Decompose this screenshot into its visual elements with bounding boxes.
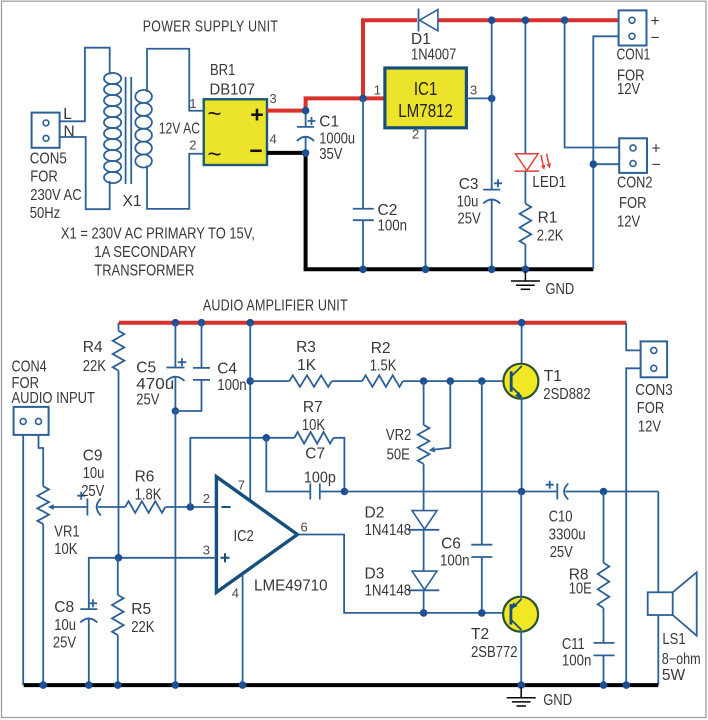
bridge rectifier BR1 box: [204, 99, 267, 165]
svg-text:1000u: 1000u: [319, 131, 355, 148]
transformer X1 secondary winding: [135, 90, 152, 168]
svg-text:GND: GND: [543, 692, 572, 709]
junction C3 ground: [488, 266, 496, 274]
svg-text:FOR: FOR: [30, 169, 58, 186]
svg-text:1.5K: 1.5K: [370, 358, 397, 375]
svg-text:POWER SUPPLY UNIT: POWER SUPPLY UNIT: [143, 19, 279, 36]
svg-text:25V: 25V: [458, 211, 482, 228]
svg-text:25V: 25V: [550, 544, 574, 561]
wire secondary bottom to BR1 pin 2: [147, 154, 204, 209]
svg-text:C6: C6: [441, 536, 461, 553]
svg-text:35V: 35V: [319, 146, 343, 163]
svg-text:C8: C8: [54, 599, 74, 616]
wire C9 to R6: [98, 506, 125, 508]
svg-text:12V AC: 12V AC: [159, 121, 200, 138]
junction top rail C3: [488, 16, 496, 24]
resistor R5 22K: [112, 595, 124, 635]
junction C1 top: [302, 107, 310, 115]
svg-text:−: −: [249, 137, 262, 163]
wire C2 from input node: [362, 98, 364, 208]
svg-text:+: +: [651, 13, 660, 30]
svg-text:D3: D3: [365, 566, 385, 583]
junction pin4 ground: [239, 681, 247, 689]
svg-text:GND: GND: [545, 281, 574, 298]
red wire BR1 pin3 to IC1 input node: [267, 98, 385, 112]
svg-text:C7: C7: [305, 446, 325, 463]
wire CON1 minus down: [593, 36, 618, 269]
svg-text:1: 1: [374, 83, 381, 98]
junction T2 collector ground: [517, 681, 525, 689]
label R7 10K: [302, 399, 326, 434]
svg-text:BR1: BR1: [210, 62, 235, 79]
speaker LS1: [648, 492, 697, 685]
junction pin3 node: [488, 95, 496, 103]
svg-text:AUDIO INPUT: AUDIO INPUT: [12, 390, 96, 407]
junction CON2 minus: [590, 160, 598, 168]
wire C6 bottom to T2 base line: [481, 557, 483, 613]
svg-text:VR1: VR1: [54, 524, 79, 541]
svg-text:CON2: CON2: [617, 175, 653, 192]
svg-text:C5: C5: [136, 360, 156, 377]
label IC2 LME49710: [234, 528, 328, 595]
label R3 1K: [296, 339, 317, 374]
VR1 wiper arrow: [48, 504, 88, 510]
svg-text:2: 2: [412, 127, 419, 142]
junction R7/C7 left: [263, 434, 271, 442]
wire CON2 minus: [593, 163, 619, 165]
capacitor C10 3300u: [546, 481, 659, 500]
svg-text:100p: 100p: [304, 470, 336, 487]
VR2 wiper arrow: [429, 381, 451, 452]
capacitor C7 100p: [310, 484, 320, 500]
transistor T1 2SD882: [503, 323, 538, 492]
label C9 10u 25V: [81, 448, 105, 501]
svg-text:C3: C3: [459, 176, 479, 193]
junction rail pin7: [246, 319, 254, 327]
label T2 2SB772: [471, 626, 518, 661]
svg-text:R1: R1: [538, 210, 558, 227]
svg-text:R3: R3: [296, 339, 316, 356]
junction IC1 pin2 ground: [422, 266, 430, 274]
label R2 1.5K: [370, 340, 397, 375]
svg-text:25V: 25V: [136, 392, 160, 409]
diode D3 1N4148: [408, 571, 439, 590]
wire R1 to ground: [524, 245, 526, 270]
svg-text:~: ~: [207, 101, 221, 128]
wire D3 to T2 base line: [423, 590, 425, 613]
svg-text:25V: 25V: [53, 635, 77, 652]
regulator IC1 box: [385, 68, 467, 128]
caption X1 transformer note: [61, 226, 255, 280]
junction C5 ground: [172, 681, 180, 689]
capacitor C8 10u: [80, 599, 97, 685]
label C5 470u 25V: [136, 360, 174, 409]
svg-text:LS1: LS1: [662, 631, 685, 648]
svg-text:7: 7: [238, 478, 245, 493]
BR1 symbols: [207, 101, 263, 169]
capacitor C3: [483, 179, 502, 269]
ground bus (audio): [24, 683, 659, 687]
wire CON5 N to primary bottom: [60, 137, 110, 209]
svg-text:LM7812: LM7812: [398, 101, 453, 121]
svg-text:3: 3: [470, 83, 477, 98]
svg-text:470u: 470u: [136, 376, 174, 393]
label T1 2SD882: [543, 368, 590, 403]
wire feedback corner to pin2: [190, 438, 294, 507]
label CON2 FOR 12V: [617, 175, 653, 231]
junction D3 bottom: [420, 609, 428, 617]
svg-text:R6: R6: [135, 469, 155, 486]
svg-text:10u: 10u: [457, 194, 479, 211]
wire IC2 pin4 to ground: [242, 574, 244, 685]
junction VR1 ground: [39, 681, 47, 689]
wire R3 to R2: [332, 380, 363, 382]
wire CON4 left pin to ground: [22, 435, 24, 685]
label R5 22K: [131, 601, 155, 636]
svg-text:CON1: CON1: [617, 47, 651, 64]
IC2 plus input mark: [221, 553, 230, 562]
svg-text:CON4: CON4: [12, 359, 47, 376]
svg-text:VR2: VR2: [386, 427, 411, 444]
svg-text:R7: R7: [303, 399, 323, 416]
svg-text:AUDIO AMPLIFIER UNIT: AUDIO AMPLIFIER UNIT: [203, 298, 348, 315]
capacitor C1: [297, 111, 316, 153]
svg-text:DB107: DB107: [210, 82, 256, 99]
wire D2 to D3: [423, 530, 425, 571]
svg-text:~: ~: [207, 141, 221, 168]
ground symbol (audio): [507, 687, 536, 706]
svg-text:R5: R5: [131, 601, 151, 618]
connector CON4: [14, 407, 49, 435]
IC2 minus input mark: [222, 506, 231, 508]
svg-text:D1: D1: [411, 31, 431, 48]
label BR1 DB107: [210, 62, 256, 99]
connector CON3: [626, 323, 667, 685]
label IC1 LM7812: [398, 79, 453, 121]
junction CON3 ground: [622, 681, 630, 689]
connector CON5: [32, 113, 60, 148]
label VR1 10K: [54, 524, 79, 559]
potentiometer VR1 10K: [37, 486, 49, 524]
wire CON5 L to primary top: [60, 48, 110, 122]
svg-text:50Hz: 50Hz: [30, 205, 60, 222]
transistor T2 2SB772: [503, 492, 538, 686]
ground symbol (power): [511, 271, 540, 289]
svg-text:3300u: 3300u: [549, 527, 586, 544]
svg-text:FOR: FOR: [637, 400, 665, 417]
junction input node: [359, 95, 367, 103]
svg-text:10u: 10u: [83, 465, 105, 482]
label R1 2.2K: [537, 210, 564, 245]
svg-text:12V: 12V: [638, 419, 662, 436]
wire IC2 pin6 output to T2 base: [297, 535, 511, 613]
wire R5 to ground: [117, 635, 119, 685]
capacitor C4 100n: [175, 323, 210, 411]
junction pin2 node: [187, 503, 195, 511]
wire R2 to T1 base: [403, 380, 511, 382]
red wire input node up to D1: [361, 20, 417, 98]
svg-text:−: −: [651, 30, 660, 47]
resistor R6 1.8K: [125, 501, 165, 513]
svg-text:230V AC: 230V AC: [30, 187, 81, 204]
junction rail C4: [198, 319, 206, 327]
label C1 1000u 35V: [319, 114, 355, 164]
label CON1 FOR 12V: [617, 47, 651, 99]
wire secondary top to BR1 pin 1: [147, 49, 204, 111]
op-amp IC2: [216, 477, 297, 593]
wire R7 right down to feedback node: [333, 438, 344, 492]
svg-text:100n: 100n: [440, 553, 470, 570]
label C4 100n: [217, 361, 247, 395]
wire 12V rail vertical / C3 branch: [491, 20, 493, 189]
svg-text:1N4148: 1N4148: [365, 522, 412, 539]
label C2 100n: [378, 202, 408, 235]
junction output node emitters: [518, 488, 526, 496]
svg-text:3: 3: [270, 91, 277, 106]
svg-text:1N4007: 1N4007: [411, 47, 456, 64]
svg-text:6: 6: [301, 520, 308, 535]
capacitor C9 10u: [77, 492, 101, 516]
wire LED branch from top rail: [524, 20, 526, 154]
junction R4/R5 bias node: [115, 554, 123, 562]
resistor R7 10K: [294, 432, 333, 444]
svg-text:C1: C1: [319, 114, 339, 131]
resistor R4 22K: [113, 323, 125, 371]
svg-text:12V: 12V: [617, 214, 641, 231]
svg-text:C9: C9: [83, 448, 103, 465]
svg-text:100n: 100n: [562, 653, 592, 670]
connector CON2: [619, 138, 647, 173]
label R6 1.8K: [135, 469, 162, 504]
svg-text:1.8K: 1.8K: [135, 487, 162, 504]
svg-text:C4: C4: [217, 361, 237, 378]
black wire BR1 pin4 to ground corner: [267, 151, 306, 269]
wire R6 to IC2 pin2: [165, 506, 216, 508]
wire bias node to R5: [117, 558, 119, 595]
svg-text:C2: C2: [378, 202, 398, 219]
output line to C10: [344, 491, 557, 493]
svg-text:TRANSFORMER: TRANSFORMER: [94, 263, 194, 280]
label R8 10E: [569, 567, 592, 598]
svg-text:2SB772: 2SB772: [471, 644, 518, 661]
capacitor C11 100n: [594, 643, 615, 656]
svg-text:1N4148: 1N4148: [365, 583, 412, 600]
svg-text:LME49710: LME49710: [254, 578, 328, 595]
svg-text:2: 2: [189, 138, 196, 153]
svg-text:22K: 22K: [83, 358, 107, 375]
svg-text:X1 = 230V AC PRIMARY TO 15V,: X1 = 230V AC PRIMARY TO 15V,: [61, 226, 255, 243]
svg-text:IC1: IC1: [414, 79, 438, 99]
label C10 3300u 25V: [549, 509, 586, 562]
svg-text:CON5: CON5: [30, 151, 67, 168]
svg-text:10K: 10K: [54, 541, 78, 558]
diode D1 1N4007: [419, 9, 438, 32]
svg-text:10E: 10E: [569, 581, 592, 598]
diode D2 1N4148: [408, 511, 439, 530]
svg-text:5W: 5W: [662, 667, 686, 684]
wire VR2 top: [423, 381, 425, 425]
svg-text:50E: 50E: [387, 447, 410, 464]
label R4 22K: [83, 339, 107, 375]
resistor R3 1K: [289, 375, 331, 387]
svg-text:LED1: LED1: [532, 174, 566, 191]
svg-text:4: 4: [270, 132, 277, 147]
resistor R8 10E: [598, 563, 610, 608]
svg-text:D2: D2: [365, 505, 385, 522]
wire VR2 bottom to D2 (crosses output line): [423, 464, 425, 511]
label VR2 50E: [386, 427, 411, 464]
resistor R1 2.2K: [520, 204, 532, 245]
svg-text:2.2K: 2.2K: [537, 228, 564, 245]
label C11 100n: [562, 636, 592, 670]
capacitor C5 470u: [166, 323, 186, 411]
svg-text:R2: R2: [371, 340, 391, 357]
resistor R2 1.5K: [362, 375, 403, 387]
label C6 100n: [440, 536, 470, 570]
capacitor C2: [353, 209, 374, 220]
svg-text:R4: R4: [83, 339, 103, 356]
wire R8 from output: [603, 492, 605, 563]
junction VR2 wiper: [447, 377, 455, 385]
wire VR1 bottom to ground: [42, 524, 44, 685]
wire IC1 pin2 to ground: [425, 128, 427, 269]
wire C2 to ground bus: [362, 220, 364, 269]
junction R1 ground: [522, 266, 530, 274]
junction C1 bottom: [302, 149, 310, 157]
wire IC1 pin3 output: [466, 97, 491, 99]
svg-text:22K: 22K: [131, 619, 155, 636]
svg-text:T2: T2: [471, 626, 489, 643]
junction C8 ground: [85, 681, 93, 689]
transformer X1 primary winding: [104, 73, 121, 183]
connector CON1: [619, 10, 647, 45]
svg-text:1: 1: [189, 96, 196, 111]
label LS1 8-ohm 5W: [662, 631, 701, 684]
wire C7 branch: [266, 438, 310, 492]
junction T1 collector rail: [518, 319, 526, 327]
junction C6 bottom: [478, 609, 486, 617]
svg-text:2: 2: [203, 491, 210, 506]
junction R5 ground: [114, 681, 122, 689]
junction top rail CON2 branch: [561, 16, 569, 24]
label D1 1N4007: [411, 31, 456, 64]
label D2 1N4148: [365, 505, 412, 540]
svg-text:100n: 100n: [217, 377, 247, 394]
junction C6 top: [478, 377, 486, 385]
svg-text:25V: 25V: [81, 483, 105, 500]
wire C11 to ground: [603, 655, 605, 685]
svg-text:C11: C11: [562, 636, 585, 653]
svg-text:T1: T1: [544, 368, 562, 385]
svg-text:4: 4: [232, 586, 239, 601]
junction R8 tap: [600, 488, 608, 496]
svg-text:+: +: [652, 141, 661, 158]
junction rail C5: [172, 319, 180, 327]
wire to R3: [250, 380, 289, 382]
svg-text:1A SECONDARY: 1A SECONDARY: [94, 244, 196, 261]
label CON5 FOR 230V AC 50Hz: [30, 151, 82, 223]
svg-text:8−ohm: 8−ohm: [662, 651, 701, 668]
svg-text:IC2: IC2: [234, 528, 254, 545]
red wire D1 to CON1: [438, 18, 618, 22]
svg-text:CON3: CON3: [635, 382, 673, 399]
wire LED to R1: [524, 171, 526, 204]
svg-text:1K: 1K: [297, 357, 317, 374]
LED1: [515, 154, 552, 172]
transformer X1 core: [126, 77, 132, 184]
wire R4 down to pin3 node: [118, 371, 120, 558]
wire R8 to C11: [603, 608, 605, 643]
junction C2 ground: [359, 266, 367, 274]
junction feedback node: [341, 488, 349, 496]
label CON4 FOR AUDIO INPUT: [12, 359, 96, 408]
wire IC2 pin3 line: [89, 558, 217, 609]
svg-text:10u: 10u: [54, 617, 76, 634]
capacitor C6 100n: [471, 545, 492, 557]
wire IC2 pin7 supply: [249, 323, 251, 502]
junction VR2 top: [420, 377, 428, 385]
svg-text:−: −: [652, 157, 661, 174]
potentiometer VR2 50E: [418, 425, 430, 464]
junction top rail LED: [522, 16, 530, 24]
label C3 10u 25V: [457, 176, 482, 228]
wire CON2 plus from rail: [565, 20, 620, 147]
svg-text:2SD882: 2SD882: [543, 386, 590, 403]
wire C6 vertical (crosses output line): [481, 381, 483, 545]
wire C7 to feedback node: [320, 491, 345, 493]
svg-text:12V: 12V: [617, 81, 641, 98]
label D3 1N4148: [365, 566, 412, 600]
label CON3 FOR 12V: [635, 382, 673, 436]
junction C5 bottom: [172, 407, 180, 415]
wire C5/C4 ground vertical: [174, 411, 176, 685]
label C8 10u 25V: [53, 599, 77, 652]
svg-text:100n: 100n: [378, 218, 408, 235]
svg-text:N: N: [64, 124, 75, 141]
svg-text:+: +: [250, 101, 263, 127]
svg-text:X1: X1: [123, 193, 142, 210]
svg-text:10K: 10K: [302, 417, 326, 434]
svg-text:C10: C10: [549, 509, 573, 526]
svg-text:FOR: FOR: [619, 195, 647, 212]
label C7 100p: [304, 446, 336, 487]
ground bus (power): [304, 267, 594, 271]
+12V rail (audio): [119, 321, 626, 325]
wire CON4 right pin to VR1: [39, 435, 44, 486]
svg-text:3: 3: [203, 543, 210, 558]
junction R3 tap: [246, 377, 254, 385]
junction C11 ground: [600, 681, 608, 689]
